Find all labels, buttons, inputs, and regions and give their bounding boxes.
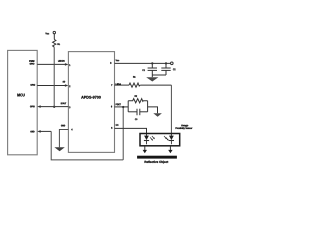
wire Vcc net: APDS pin 8 to Vcc terminal [115,62,171,64]
junction dot PDET node [122,106,124,108]
wire APDS pin 4 GND [59,130,68,148]
text Vcc top left terminal [45,33,49,35]
text pin number 1 [68,64,71,66]
LED emission arrows [150,136,155,141]
text pin label GPIO (DOUT) [30,106,35,108]
wire riser from rail to PDET node [122,107,124,160]
wire DOUT net: APDS pin 3 to MCU GPIO pin [40,106,69,108]
text R1 resistor label [133,76,135,78]
text Proximity Sensor label [176,127,193,129]
text pin number 2 [69,85,70,87]
text Reflective Object label [145,161,169,164]
text net label DOUT [61,103,66,105]
photodiode D2 inside sensor [169,134,174,144]
reflective object bar [137,156,177,159]
text pin label GND (MCU) [30,131,34,133]
wire CX net: APDS pin 5 to sensor LED [115,128,147,134]
text pin number 3 [69,106,70,108]
text pin number 8 [110,62,111,64]
text C1 label [142,69,144,71]
arrowhead into APDS pin 1 [65,63,69,66]
text R2 resistor label [135,95,137,97]
text pin label PWM/ [29,60,34,62]
capacitor C2 [161,63,170,75]
text RL resistor label [58,43,61,45]
text APDS-9700 name [81,96,101,99]
wire MCU GND pin to bottom rail [40,130,52,132]
text pin number 7 [110,84,113,86]
text C3 capacitor label [135,118,137,120]
capacitor C3 (bottom branch) [128,109,147,116]
wire RL to DOUT junction [53,47,55,107]
junction dot C2 [165,62,167,64]
text CX pin label [116,124,119,126]
text C2 label [173,69,175,71]
text LEDA pin label [116,83,121,85]
power terminal Vcc (top right) [171,62,174,65]
wire PDET net: APDS pin 6 to RC filter [115,106,129,108]
text pin number 5 [111,127,112,129]
text PDET pin label [116,104,121,106]
LED D1 inside sensor [144,134,149,144]
wire bottom rail [51,131,123,160]
text net label SD [63,81,65,83]
junction dot DOUT / pull-up resistor [53,106,55,108]
text MCU name [17,94,24,97]
resistor R1 (horizontal zigzag) [129,83,140,87]
RC filter loop right side [147,101,149,112]
text pin label GPIO (SD) [30,84,35,86]
RC filter loop left side [127,101,129,112]
wire RC filter to ground [148,107,158,113]
reflected light ray arrow [168,146,172,153]
power terminal Vcc (top left) [53,31,55,33]
wire R1 to sensor photodiode [140,84,171,86]
resistor R2 (top branch zigzag) [128,99,147,103]
arrowhead into MCU (GND pin) [37,130,41,133]
text Avago label [181,125,188,127]
arrowhead into APDS pin 2 [65,84,69,87]
IC MCU box [8,50,38,154]
ground symbol (decoupling caps) [146,75,158,82]
sensor module box (Avago proximity sensor) [140,134,180,146]
ground symbol (pin 4) [54,147,64,151]
text net label GND (pin4) [61,125,65,127]
text Vcc pin 8 label [116,60,120,62]
text pin label GPIO line2 [30,63,35,65]
resistor RL (vertical zigzag) [53,39,56,47]
text net label LEDON [58,60,64,62]
photodiode reception arrows [164,136,169,141]
IC U1 APDS-9700 box [68,52,114,153]
text pin number 4 [71,129,72,131]
wire LEDA net: APDS pin 7 to resistor R1 [115,84,130,86]
wire SD net: MCU GPIO pin to APDS pin 2 [37,85,66,87]
ground symbol (RC filter) [153,113,162,117]
junction dot C1 [151,62,153,64]
wire drop to photodiode [170,85,172,134]
wire Vcc terminal to resistor RL [53,34,55,40]
text pin number 6 [111,106,112,108]
wire LEDON net: MCU PWM/GPIO pin to APDS pin 1 [37,63,66,65]
capacitor C1 [148,63,157,75]
arrowhead into MCU (DOUT) [37,105,41,108]
emitted light ray arrow [143,146,147,153]
wire capacitor commons [152,74,166,76]
